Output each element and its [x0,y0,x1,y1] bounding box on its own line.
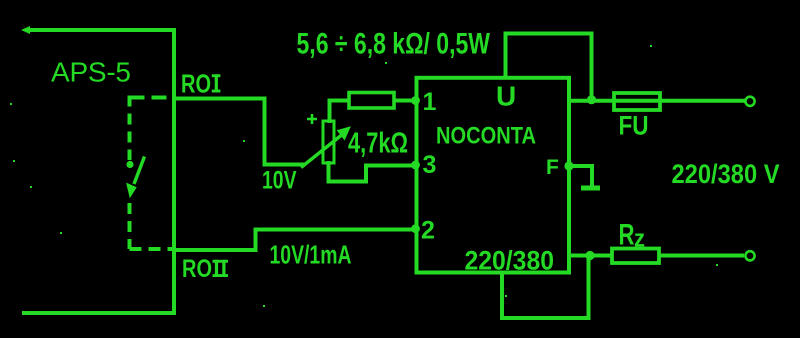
svg-text:1: 1 [423,88,437,116]
svg-text:220/380: 220/380 [465,246,555,276]
svg-text:10V/1mA: 10V/1mA [270,240,352,270]
svg-text:z: z [634,226,645,253]
svg-text:RO: RO [182,255,212,283]
svg-text:RO: RO [181,69,211,99]
svg-text:R: R [619,219,635,252]
svg-text:F: F [546,156,559,179]
svg-text:220/380 V: 220/380 V [672,159,780,189]
svg-text:NOCONTA: NOCONTA [436,123,536,150]
svg-text:U: U [496,81,516,112]
svg-text:4,7kΩ: 4,7kΩ [348,128,408,160]
svg-text:2: 2 [421,217,435,245]
svg-text:5,6 ÷ 6,8 kΩ/ 0,5W: 5,6 ÷ 6,8 kΩ/ 0,5W [297,28,491,61]
svg-text:3: 3 [423,151,437,179]
svg-text:APS-5: APS-5 [51,57,131,88]
svg-text:FU: FU [619,111,649,141]
svg-text:10V: 10V [262,167,297,195]
